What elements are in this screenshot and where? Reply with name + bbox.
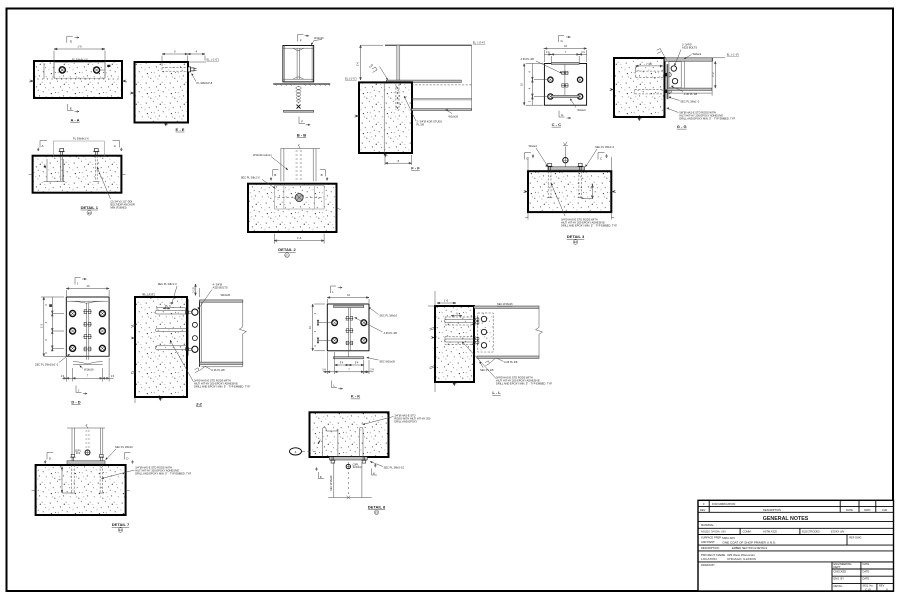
left arrow E-E bbox=[130, 92, 135, 95]
anchor rod 1 into wall L-L bbox=[445, 320, 477, 323]
side ticks detail 7 bbox=[32, 489, 36, 492]
top small dim 2-2 bbox=[195, 284, 200, 297]
leaders right K-K bbox=[369, 307, 379, 315]
svg-text:F - F: F - F bbox=[411, 166, 420, 171]
svg-text:E3: E3 bbox=[285, 253, 289, 257]
hanger rod center detail 3 bbox=[564, 147, 566, 158]
svg-text:1'4: 1'4 bbox=[61, 374, 65, 378]
svg-text:DETAIL: DETAIL bbox=[834, 584, 843, 588]
svg-text:DETAIL 2: DETAIL 2 bbox=[278, 247, 296, 252]
left dim C-C bbox=[523, 64, 548, 106]
note detail 7 bbox=[102, 470, 135, 479]
bracket dim detail 3 bbox=[581, 185, 593, 199]
flange inner lines B-B bbox=[283, 47, 314, 49]
svg-text:SEC PL 3/8x1'-6: SEC PL 3/8x1'-6 bbox=[241, 175, 261, 179]
embedded plate outline detail 2 bbox=[274, 186, 324, 209]
svg-text:1'4: 1'4 bbox=[111, 374, 115, 378]
svg-text:DATE: DATE bbox=[863, 562, 870, 566]
svg-text:CHICAGO, ILLINOIS: CHICAGO, ILLINOIS bbox=[727, 557, 756, 561]
grid bubble 4 bbox=[290, 448, 302, 455]
top dim L-L bbox=[437, 302, 456, 304]
beam seat lines bbox=[412, 98, 472, 100]
leader W beam D-D bbox=[80, 366, 84, 369]
svg-text:0: 0 bbox=[886, 587, 888, 591]
beam right F-F: hidden top flange bbox=[412, 84, 472, 86]
svg-text:3/4 DIA. U/N: 3/4 DIA. U/N bbox=[711, 529, 726, 533]
plate outline D-D bbox=[66, 297, 109, 356]
concrete block G-G bbox=[614, 58, 665, 117]
svg-text:FOR FABRICATION: FOR FABRICATION bbox=[712, 502, 735, 506]
svg-text:DRILL AND EPOXY: DRILL AND EPOXY bbox=[394, 420, 417, 424]
svg-text:DRAWN BY: DRAWN BY bbox=[701, 563, 715, 567]
svg-text:-: - bbox=[716, 524, 717, 527]
top dim K-K bbox=[327, 297, 369, 303]
anchor rod 1 (in wall) 2-2 bbox=[155, 308, 186, 314]
leader SEC PL G-G bbox=[669, 97, 680, 101]
svg-text:GENERAL NOTES: GENERAL NOTES bbox=[763, 516, 809, 522]
beam end dotted region L-L bbox=[478, 313, 493, 352]
top plate edge bar C-C bbox=[551, 62, 579, 64]
dashed anchor shafts detail 7 bbox=[72, 465, 103, 493]
column above detail 2 bbox=[281, 148, 320, 150]
web line K-K bbox=[348, 308, 350, 357]
svg-text:DRILL AND EPOXY MIN. 5" · TY: DRILL AND EPOXY MIN. 5" · TYP EMBED. TYP… bbox=[135, 471, 192, 475]
svg-text:PROJECT NAME: PROJECT NAME bbox=[701, 553, 725, 557]
section marker J bottom bbox=[76, 386, 87, 395]
svg-text:DWN: DWN bbox=[864, 508, 870, 512]
bolt right on plate detail 3 bbox=[577, 163, 583, 170]
beam top flange L-L bbox=[474, 306, 539, 308]
left dim F-F bbox=[360, 45, 383, 80]
bottom tick F-F bbox=[383, 153, 388, 158]
beam web end line G-G bbox=[684, 61, 686, 88]
bearing plate on wall F-F bbox=[386, 80, 461, 82]
plate above concrete (section) bbox=[53, 141, 104, 156]
concrete block A-A bbox=[34, 61, 122, 98]
hanger verticals detail 8 bbox=[333, 462, 335, 498]
beam web D-D bbox=[85, 303, 87, 360]
left break marks L-L bbox=[430, 327, 435, 369]
anchor bolt left detail 1 bbox=[59, 149, 65, 156]
note 2-2 bbox=[170, 340, 194, 382]
svg-text:E - E: E - E bbox=[176, 127, 185, 132]
svg-text:A 36 PL 3/8: A 36 PL 3/8 bbox=[504, 360, 518, 364]
bolt heads right 2-2 bbox=[192, 309, 198, 315]
section marker L top bbox=[331, 286, 343, 294]
top plate bar detail 3 bbox=[548, 167, 585, 170]
web lines B-B bbox=[296, 48, 298, 79]
left arrows L-L bbox=[431, 336, 435, 339]
svg-text:E3: E3 bbox=[574, 240, 578, 244]
section marker K right bbox=[372, 464, 378, 475]
section marker F top bbox=[298, 35, 309, 43]
rev row verticals bbox=[708, 500, 710, 512]
svg-text:C10: C10 bbox=[865, 587, 871, 591]
svg-text:A 36 PL 3/8: A 36 PL 3/8 bbox=[521, 57, 535, 61]
svg-text:3'4: 3'4 bbox=[355, 361, 359, 365]
svg-text:L: L bbox=[333, 384, 335, 388]
top dim 10 D-D bbox=[66, 288, 109, 296]
section marker A right bbox=[113, 141, 123, 152]
svg-text:SEC PL 3/8x10x1'-2: SEC PL 3/8x10x1'-2 bbox=[35, 363, 59, 367]
svg-text:D - D: D - D bbox=[71, 399, 80, 404]
anchor rod 2 into wall L-L bbox=[445, 339, 477, 342]
bolt circles C-C bbox=[548, 77, 553, 82]
bracket dim detail 7 bbox=[61, 467, 72, 494]
svg-text:REV: REV bbox=[879, 584, 885, 588]
svg-text:DATE: DATE bbox=[863, 577, 870, 581]
svg-text:DETAIL 8: DETAIL 8 bbox=[368, 504, 386, 509]
dim inside block G-G bbox=[636, 65, 663, 71]
section marker C left bbox=[525, 153, 535, 161]
svg-text:1'4: 1'4 bbox=[546, 50, 550, 54]
svg-text:SEC PL 3/8x10: SEC PL 3/8x10 bbox=[379, 314, 397, 318]
svg-text:ENG. BY: ENG. BY bbox=[834, 577, 845, 581]
dashed line through bolt bbox=[278, 197, 322, 199]
center washer symbol detail 7 bbox=[85, 450, 90, 455]
dims above E-E bbox=[162, 53, 205, 66]
web bolts K-K bbox=[345, 316, 353, 320]
left edge arrow 2-2 bbox=[131, 337, 135, 340]
svg-text:SSPC-SP3: SSPC-SP3 bbox=[722, 536, 735, 540]
svg-text:W16x26: W16x26 bbox=[449, 115, 459, 119]
svg-text:7 1/2: 7 1/2 bbox=[646, 62, 652, 66]
svg-text:A325 BOLTS: A325 BOLTS bbox=[213, 286, 228, 290]
column above F-F bbox=[397, 45, 400, 80]
surface prep row bbox=[846, 535, 848, 546]
concrete block E-E bbox=[135, 62, 189, 123]
svg-text:SEC PL 3/8x1'-6: SEC PL 3/8x1'-6 bbox=[595, 145, 615, 149]
anchor rod 3 2-2 bbox=[155, 346, 186, 350]
embedded hook left detail 8 bbox=[323, 427, 338, 457]
section marker B left bbox=[270, 170, 278, 181]
anchor rod 2 2-2 bbox=[155, 329, 186, 332]
section marker L bottom bbox=[332, 381, 343, 390]
small blob bbox=[44, 165, 46, 167]
embedded rod 1 dashed G-G bbox=[636, 71, 666, 77]
left arrow G-G bbox=[610, 88, 615, 91]
svg-text:4: 4 bbox=[295, 450, 297, 454]
svg-text:EL. (-1'-0"): EL. (-1'-0") bbox=[207, 58, 220, 62]
beam bottom flange L-L bbox=[477, 356, 539, 358]
concrete block L-L bbox=[435, 306, 474, 382]
svg-text:W/stud: W/stud bbox=[577, 108, 586, 112]
svg-text:DATE: DATE bbox=[863, 570, 870, 574]
beam right end with break 2-2 bbox=[239, 300, 246, 367]
leader studs note F-F bbox=[404, 96, 416, 121]
beam cut line above detail 7 bbox=[67, 427, 105, 429]
svg-text:F: F bbox=[301, 119, 303, 123]
svg-text:B - B: B - B bbox=[297, 132, 306, 137]
bottom line detail 8 bbox=[328, 497, 371, 499]
studs dashed in wall F-F bbox=[396, 84, 399, 110]
leader note anchors detail 1 bbox=[97, 167, 111, 199]
svg-text:B: B bbox=[274, 173, 276, 177]
side arrows A-A bbox=[30, 80, 35, 83]
embedded sleeve left (U outline) bbox=[44, 159, 66, 182]
flange tip lines B-B bbox=[284, 46, 286, 82]
side arrows detail 3 bbox=[524, 190, 529, 193]
bottom tick G-G bbox=[637, 117, 642, 121]
right edge tick detail 2 bbox=[337, 208, 341, 210]
note top right detail 8 bbox=[363, 417, 394, 425]
bottom dim D-D bbox=[62, 358, 114, 382]
svg-text:E3: E3 bbox=[375, 511, 379, 515]
svg-text:HOLES: HOLES bbox=[701, 529, 710, 533]
svg-text:1'4: 1'4 bbox=[370, 367, 374, 371]
svg-text:DRILL AND EPOXY MIN. 5" · TY: DRILL AND EPOXY MIN. 5" · TYP EMBED. TYP… bbox=[496, 382, 553, 386]
svg-text:B: B bbox=[321, 173, 323, 177]
svg-text:C - C: C - C bbox=[552, 122, 561, 127]
stud pair on center line C-C bbox=[561, 71, 569, 74]
concrete block detail 2 bbox=[248, 184, 337, 232]
section marker A left bbox=[37, 141, 47, 152]
svg-text:EL.(-1'-0"): EL.(-1'-0") bbox=[345, 77, 357, 81]
svg-text:COMM:: COMM: bbox=[743, 529, 752, 533]
svg-text:DETAIL 1: DETAIL 1 bbox=[81, 205, 99, 210]
leader W beam F-F bbox=[446, 110, 453, 114]
weld tabs G-G bbox=[665, 73, 668, 77]
beam outline B-B bbox=[283, 46, 314, 82]
bolts under plate detail 8 bbox=[330, 457, 335, 463]
washer circle center detail 3 bbox=[563, 158, 568, 163]
svg-text:W16x26: W16x26 bbox=[221, 293, 231, 297]
section marker F bottom bbox=[299, 117, 310, 126]
concrete block 2-2 bbox=[135, 297, 187, 397]
svg-text:3x3: 3x3 bbox=[76, 451, 81, 455]
svg-text:E3: E3 bbox=[88, 211, 92, 215]
svg-text:L - L: L - L bbox=[492, 390, 501, 395]
svg-text:REV: REV bbox=[700, 508, 706, 512]
svg-text:SEC PL 3/8x0'-10: SEC PL 3/8x0'-10 bbox=[384, 465, 405, 469]
svg-text:ONE COAT OF SHOP PRIMER U.N.O.: ONE COAT OF SHOP PRIMER U.N.O. bbox=[722, 541, 776, 545]
section marker C right bbox=[598, 153, 608, 161]
column flanges detail 7 bbox=[71, 428, 73, 458]
note L-L bbox=[462, 342, 496, 379]
svg-text:L: L bbox=[332, 290, 334, 294]
svg-text:PL 3/8x9x1'-6: PL 3/8x9x1'-6 bbox=[72, 57, 88, 61]
svg-text:SEC W16x26: SEC W16x26 bbox=[497, 302, 513, 306]
anchor bolt right detail 1 bbox=[93, 149, 99, 156]
concrete block detail 7 bbox=[36, 465, 126, 515]
stud dashes center detail 7 bbox=[86, 431, 90, 447]
svg-text:3'4: 3'4 bbox=[340, 361, 344, 365]
right dim G-G bbox=[714, 61, 716, 88]
svg-text:SEC W16x26: SEC W16x26 bbox=[379, 359, 395, 363]
center dashed rod detail 8 bbox=[347, 462, 349, 494]
stud tick right of bolt bbox=[107, 65, 110, 67]
svg-text:1'4: 1'4 bbox=[581, 50, 585, 54]
section marker E top bbox=[67, 36, 79, 43]
beam right break L-L bbox=[536, 308, 543, 356]
plate outline K-K bbox=[327, 304, 369, 351]
signature sub-table bbox=[832, 562, 894, 591]
concrete block detail 1 bbox=[33, 156, 122, 193]
edge dim line A-A bbox=[43, 63, 45, 79]
bolt left A-A bbox=[59, 67, 65, 73]
bolts L-L bbox=[481, 316, 486, 321]
svg-text:DATE: DATE bbox=[846, 508, 853, 512]
svg-text:SEC PL 3/8x1'-2: SEC PL 3/8x1'-2 bbox=[680, 100, 700, 104]
svg-text:3x3x1/2: 3x3x1/2 bbox=[353, 465, 363, 469]
left dim K-K bbox=[312, 304, 331, 351]
anchor bolt right shaft dashed bbox=[95, 156, 97, 181]
bottom dim detail 2 bbox=[274, 234, 324, 244]
svg-text:K - K: K - K bbox=[351, 394, 360, 399]
embed plate edge G-G bbox=[666, 64, 668, 99]
section marker B right bbox=[320, 170, 328, 181]
weld symbol bottom 2-2 bbox=[195, 368, 199, 373]
bolt circles D-D (6) bbox=[70, 311, 76, 317]
lower bar K-K bbox=[334, 357, 364, 359]
wall inner face line bbox=[383, 82, 385, 153]
svg-text:CHK: CHK bbox=[882, 508, 888, 512]
svg-text:EL. (-1'-0"): EL. (-1'-0") bbox=[727, 53, 740, 57]
left arrow F-F bbox=[355, 115, 360, 118]
end plate outline G-G bbox=[669, 62, 681, 88]
svg-text:EL. (-0'-4"): EL. (-0'-4") bbox=[473, 41, 486, 45]
leader W/plate top right bbox=[311, 40, 322, 46]
svg-text:SURFACE PREP.: SURFACE PREP. bbox=[701, 536, 722, 540]
svg-text:A325 BOLTS: A325 BOLTS bbox=[682, 46, 697, 50]
svg-text:W12x26 column: W12x26 column bbox=[253, 153, 272, 157]
center bolt detail 2 bbox=[295, 194, 303, 202]
bottom tick L-L bbox=[452, 382, 457, 386]
beam top flange 2-2 bbox=[200, 300, 243, 302]
svg-text:DEPT.: DEPT. bbox=[834, 565, 842, 569]
svg-text:A 36 PL 3/8: A 36 PL 3/8 bbox=[384, 331, 398, 335]
upper floor line bbox=[385, 44, 472, 46]
embedded plate outline A-A bbox=[54, 63, 105, 79]
beam end plate 2-2 bbox=[199, 300, 201, 367]
beam bottom flange 2-2 bbox=[200, 362, 243, 364]
svg-text:E: E bbox=[70, 40, 72, 44]
leader SEC PL detail 2 bbox=[262, 180, 276, 189]
svg-text:W12x26: W12x26 bbox=[314, 36, 324, 40]
svg-text:325 West Wisconsin: 325 West Wisconsin bbox=[727, 553, 755, 557]
sub dim row C-C bbox=[544, 54, 586, 63]
leader column note bbox=[271, 157, 288, 171]
svg-text:DRILL AND EPOXY MIN. 5" · TY: DRILL AND EPOXY MIN. 5" · TYP EMBED. TYP… bbox=[194, 385, 251, 389]
bottom ticks 2-2 bbox=[158, 397, 163, 401]
beam flange top D-D bbox=[67, 300, 108, 302]
svg-text:DETAIL 3: DETAIL 3 bbox=[567, 234, 585, 239]
section marker K left bbox=[316, 468, 324, 479]
svg-text:PL 3/8x9x1'-6: PL 3/8x9x1'-6 bbox=[73, 137, 89, 141]
svg-text:2-2: 2-2 bbox=[195, 401, 203, 406]
svg-text:ASTM A325: ASTM A325 bbox=[763, 529, 777, 533]
top dim 10 C-C bbox=[543, 48, 586, 62]
bolt protruding right E-E bbox=[188, 67, 197, 72]
svg-text:SEC PL 3/8x1'-0: SEC PL 3/8x1'-0 bbox=[158, 282, 178, 286]
svg-text:F: F bbox=[300, 38, 302, 42]
svg-text:1'-2: 1'-2 bbox=[39, 323, 43, 328]
concrete block detail 3 bbox=[528, 171, 611, 212]
construction lines L-L bbox=[434, 291, 436, 306]
title block outer frame bbox=[698, 500, 894, 591]
leader SEC PL detail 8 bbox=[370, 462, 383, 467]
svg-text:1'-6: 1'-6 bbox=[297, 236, 302, 240]
concrete block detail 8 bbox=[310, 412, 389, 457]
svg-text:A 36 PL 3/8: A 36 PL 3/8 bbox=[211, 368, 225, 372]
stud stack B-B bbox=[296, 86, 301, 104]
svg-text:EL. (-1'-0"): EL. (-1'-0") bbox=[143, 292, 156, 296]
title block row lines bbox=[698, 505, 894, 507]
bolt right A-A bbox=[94, 67, 100, 73]
anchor bolt left shaft bbox=[61, 156, 63, 181]
section marker G top bbox=[559, 36, 571, 43]
svg-text:ELECTRODES:: ELECTRODES: bbox=[802, 529, 821, 533]
section marker J top bbox=[75, 278, 86, 286]
embed plate edge 2-2 bbox=[186, 297, 188, 358]
stud dashes in column bbox=[296, 151, 303, 179]
bolts G-G bbox=[671, 66, 676, 71]
svg-text:1'-2: 1'-2 bbox=[711, 72, 715, 77]
left break marks 2-2 bbox=[131, 324, 136, 374]
center stud line C-C bbox=[564, 64, 566, 97]
weld tabs 2-2 bbox=[185, 311, 188, 315]
embedded rod 2 dashed G-G bbox=[635, 90, 666, 94]
svg-text:E: E bbox=[70, 107, 72, 111]
holes row verticals bbox=[739, 528, 741, 534]
beam end line right G-G bbox=[711, 58, 713, 96]
small weld triangle detail 8 bbox=[318, 439, 321, 444]
svg-text:W16x26: W16x26 bbox=[84, 367, 94, 371]
bottom bar C-C bbox=[552, 95, 580, 97]
beam bottom flange F-F bbox=[412, 109, 472, 111]
dashed studs below left detail 3 bbox=[548, 171, 582, 198]
svg-text:1'-6: 1'-6 bbox=[444, 298, 449, 302]
svg-text:DRILL AND EPOXY MIN. 5" · TY: DRILL AND EPOXY MIN. 5" · TYP EMBED. TYP… bbox=[561, 223, 618, 227]
bottom arrow E-E bbox=[164, 123, 169, 127]
section marker G bottom bbox=[559, 111, 571, 119]
base plate detail 8 bbox=[329, 457, 367, 460]
svg-text:EMBED SECTION & DETAILS: EMBED SECTION & DETAILS bbox=[732, 546, 768, 550]
top center tick bbox=[298, 144, 300, 148]
weld symbol L-L bbox=[485, 361, 489, 366]
EL line from top corner bbox=[188, 61, 206, 63]
svg-text:1'-6: 1'-6 bbox=[77, 45, 82, 49]
rod dim L-L bbox=[451, 315, 462, 317]
section marker E bottom bbox=[68, 104, 80, 112]
svg-text:A 36 PL 3/8: A 36 PL 3/8 bbox=[684, 92, 698, 96]
svg-text:E70XX U/N: E70XX U/N bbox=[831, 529, 844, 533]
svg-text:DETAIL 7: DETAIL 7 bbox=[112, 522, 130, 527]
svg-text:SEC PL 3/8x10: SEC PL 3/8x10 bbox=[115, 445, 133, 449]
svg-text:W/stud: W/stud bbox=[529, 144, 538, 148]
embedded hook right detail 8 bbox=[359, 427, 363, 457]
svg-text:A - A: A - A bbox=[70, 118, 79, 123]
svg-text:G - G: G - G bbox=[677, 124, 687, 129]
svg-text:DESCRIPTION: DESCRIPTION bbox=[763, 508, 781, 512]
bottom dims K-K bbox=[323, 352, 374, 374]
svg-text:REF DWG: REF DWG bbox=[849, 535, 861, 539]
plate outline C-C bbox=[544, 64, 586, 106]
side ticks detail 1 bbox=[29, 173, 33, 176]
svg-text:PL 3/8: PL 3/8 bbox=[417, 123, 425, 127]
svg-text:PL 3/8x9x0'-8: PL 3/8x9x0'-8 bbox=[197, 81, 213, 85]
leader plate note right G-G bbox=[671, 86, 683, 92]
base plate detail 7 bbox=[67, 461, 105, 464]
leader W/plate E-E bbox=[192, 74, 197, 82]
bolt left on plate detail 3 bbox=[547, 163, 553, 170]
leader note detail 3 bbox=[551, 183, 565, 216]
bottom plate bar B-B bbox=[283, 110, 313, 112]
svg-text:E3: E3 bbox=[119, 528, 123, 532]
top bar K-K bbox=[334, 305, 364, 307]
stud dot row A-A bbox=[37, 78, 118, 79]
section marker D right bbox=[125, 453, 134, 464]
